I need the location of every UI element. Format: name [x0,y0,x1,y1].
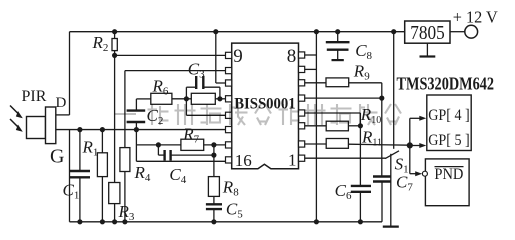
svg-text:D: D [56,95,67,111]
svg-text:16: 16 [235,151,252,170]
svg-text:GP[ 5 ]: GP[ 5 ] [428,132,470,149]
svg-text:TMS320DM642: TMS320DM642 [397,74,495,94]
svg-text:+ 12 V: + 12 V [453,7,499,26]
svg-text:1: 1 [288,151,297,170]
svg-text:GP[ 4 ]: GP[ 4 ] [428,107,470,124]
svg-text:G: G [50,146,64,168]
svg-text:8: 8 [287,46,297,67]
svg-text:9: 9 [233,46,243,67]
svg-text:PIR: PIR [22,88,47,105]
svg-text:7805: 7805 [410,22,445,44]
svg-text:PND: PND [434,166,463,183]
